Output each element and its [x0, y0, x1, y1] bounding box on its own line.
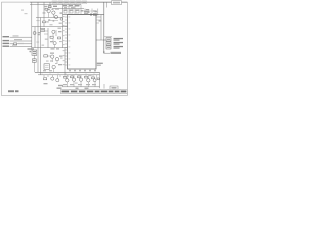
wire R-ic-right — [96, 39, 106, 41]
IC U2 box — [44, 64, 50, 70]
wire vertical V12 — [99, 72, 101, 88]
wire vertical bus V3 — [40, 18, 42, 75]
label mid band B — [50, 24, 53, 25]
U1 bottom stubs — [70, 69, 95, 72]
resistor R13 — [92, 77, 95, 79]
rail R-ic-top — [63, 14, 104, 16]
label bottom-mid — [58, 85, 63, 86]
label R2 side — [51, 9, 53, 10]
rail R-top — [30, 3, 81, 5]
resistor R12 — [85, 76, 88, 78]
logo mark — [112, 87, 117, 89]
title block dividers — [70, 89, 120, 93]
wire R-right-top — [104, 36, 112, 38]
transistor Q2 — [52, 11, 55, 14]
rail R-gnd1 — [35, 71, 100, 73]
scattered faint labels — [37, 20, 92, 84]
logo box — [110, 86, 118, 90]
U1 bottom pin numbers — [69, 70, 96, 71]
label X1 — [28, 48, 35, 52]
U1 pin stubs left — [65, 17, 68, 65]
relay K1 contact marks — [38, 32, 41, 35]
labels above gnd rail — [43, 70, 52, 71]
transistor Q9 — [52, 65, 55, 68]
label U2 — [58, 64, 62, 65]
wire segment above IC b — [84, 10, 97, 12]
U3 mark — [33, 60, 35, 61]
wire stubs below rails — [65, 75, 97, 80]
resistor R1 — [45, 8, 48, 10]
top rail (VCC bus along frame top) — [30, 1, 127, 3]
wire stub V5 — [49, 2, 51, 8]
component marks above IC — [64, 10, 84, 12]
transistor Q6 — [53, 42, 56, 45]
resistor R2 — [48, 6, 51, 8]
wire stub V14 — [106, 2, 108, 7]
net label N1 — [52, 1, 57, 4]
wires Q12-Q15 emitters — [67, 81, 95, 87]
label net C2b — [84, 13, 88, 14]
wire vertical V10 — [100, 15, 102, 40]
net label N3 — [64, 1, 69, 4]
label Q8 — [59, 56, 63, 57]
label R15 — [46, 21, 49, 22]
wire J1 row4 — [10, 45, 32, 47]
label R1 value — [44, 6, 47, 7]
label row3 value — [18, 43, 24, 44]
rail R-a — [36, 17, 63, 19]
label row above IC — [53, 5, 80, 8]
wire Q1 emitter — [48, 13, 50, 18]
wire stubs above IC mid — [67, 9, 79, 11]
wire vertical V9 — [64, 48, 66, 75]
transistor Q12 — [66, 79, 69, 82]
wire Q6 down — [54, 45, 56, 48]
crystal X1 box — [32, 50, 37, 55]
transistor Q1 — [47, 9, 50, 12]
label mid — [50, 60, 53, 61]
connector J3 pin3 — [106, 46, 111, 49]
resistor R10 — [71, 76, 74, 78]
transistor Q16 — [93, 79, 96, 82]
wire vertical V8 — [62, 4, 64, 47]
net label N5 — [76, 1, 81, 4]
wire R7-Q7 — [47, 55, 50, 57]
component U3 box — [32, 59, 36, 63]
rail R-bot — [62, 86, 100, 88]
transistor Q15 — [87, 79, 90, 82]
wire vertical bus V2 — [37, 2, 39, 72]
capacitor C1 — [90, 13, 91, 15]
resistor R9 — [64, 76, 67, 78]
resistor R5 — [50, 36, 53, 38]
label row2 value — [14, 39, 22, 40]
wire Q7 down — [51, 58, 53, 62]
junction dot A — [97, 14, 98, 15]
junction dot B — [103, 39, 104, 40]
wire U3 to gnd rail — [33, 62, 35, 72]
transistor Q8 — [55, 58, 58, 61]
bottom stubs — [44, 75, 60, 79]
wire Q8 down — [56, 61, 58, 64]
U1 right pin stubs — [96, 17, 101, 23]
resistor R7 — [44, 55, 48, 57]
wire K1 out1 — [44, 30, 48, 32]
transistor Q7 — [51, 55, 54, 58]
label out1 — [114, 38, 124, 41]
label Q5 — [58, 31, 62, 32]
revision tab text — [113, 2, 120, 4]
wire stub V13 — [103, 84, 105, 89]
rail R-sub — [52, 8, 84, 10]
rail R-c — [32, 47, 68, 49]
labels bottom row — [63, 84, 96, 85]
wire Q5-R5 — [52, 33, 54, 36]
label R5 side — [45, 39, 48, 40]
transistor Q11 — [56, 79, 59, 82]
IC U1 — [68, 15, 97, 69]
connector J1 rows — [3, 36, 10, 47]
wire J1 row2 — [10, 40, 32, 42]
wire K1 out2 — [44, 33, 48, 35]
U2 marks — [45, 66, 49, 68]
resistor R15 — [43, 21, 46, 23]
transistor Q10 — [51, 77, 54, 80]
label under rail A — [48, 19, 50, 20]
label row1 value — [13, 35, 19, 36]
small marks right-top — [86, 9, 102, 22]
title text bottom-left — [8, 90, 14, 92]
U1 top feed wires — [69, 4, 81, 14]
label gnd row — [57, 88, 89, 89]
label C1 top — [87, 11, 97, 13]
rail R-b — [32, 26, 68, 28]
label Q3 value — [60, 12, 63, 13]
transistor Q14 — [79, 78, 82, 81]
relay K1 label — [41, 29, 44, 30]
label right-low — [97, 63, 103, 66]
label out3 — [114, 46, 124, 49]
resistor R14 — [97, 78, 99, 80]
net label N4 — [70, 1, 75, 4]
label net C2 area — [84, 11, 89, 13]
wire stub V4 — [43, 2, 45, 26]
resistor R3 — [94, 14, 97, 16]
wire X1 to U3 — [33, 55, 35, 59]
rail R-gnd2 — [38, 74, 100, 76]
resistor R11 — [78, 76, 81, 78]
label Q7 — [50, 53, 54, 54]
wire R5 down — [52, 38, 54, 41]
label R8 — [44, 83, 48, 84]
wire J1 row3 — [10, 43, 32, 45]
connector J3 pin2 — [106, 42, 111, 45]
net label N6 — [82, 1, 87, 4]
connector J3 pin1 — [106, 38, 111, 41]
title block text — [62, 91, 127, 93]
revision tab box — [112, 1, 122, 5]
transistor Q4 — [33, 32, 36, 35]
label Q5 top — [58, 28, 62, 29]
wire vertical bus V1 — [31, 2, 33, 50]
label Q2 value — [55, 8, 59, 9]
rail tie ticks — [42, 72, 94, 75]
label row4 value — [12, 45, 17, 46]
transistor Q3 — [54, 15, 57, 18]
label out2 — [114, 42, 124, 45]
border frame — [2, 2, 128, 96]
label Q6 — [50, 41, 53, 42]
wire vertical V7 — [55, 30, 57, 36]
X1 internal marks — [33, 51, 36, 54]
wire Q2 emitter — [52, 14, 54, 17]
net label N2 — [58, 1, 63, 4]
label mid band A — [59, 23, 62, 24]
label below rail — [51, 48, 60, 49]
resistor R6 — [58, 37, 61, 39]
wire vertical V6 — [47, 28, 49, 48]
wire J1 row1 — [10, 36, 32, 38]
wire segment above IC a — [63, 5, 79, 7]
title block strip — [61, 89, 128, 93]
transistor Q5 — [52, 30, 55, 33]
decoupling parts above U1 — [64, 10, 79, 13]
transistor Q17 — [60, 18, 62, 20]
resistor R4 inline — [14, 43, 17, 45]
label Q1 base — [43, 12, 46, 13]
transistor Q13 — [72, 78, 75, 81]
wire arrow-out — [103, 52, 121, 54]
relay K1 box — [41, 28, 45, 31]
faint marks upper-left — [21, 10, 28, 15]
wire Q9 down — [53, 69, 55, 73]
wire vertical V15 — [34, 27, 36, 48]
U1 inner pin numbers — [69, 16, 71, 65]
wire vertical V11 — [103, 2, 105, 53]
U1 pin labels — [63, 16, 65, 65]
wire stubs above IC right — [85, 9, 98, 15]
resistor R8 — [44, 78, 47, 80]
label under rail B — [53, 20, 55, 22]
